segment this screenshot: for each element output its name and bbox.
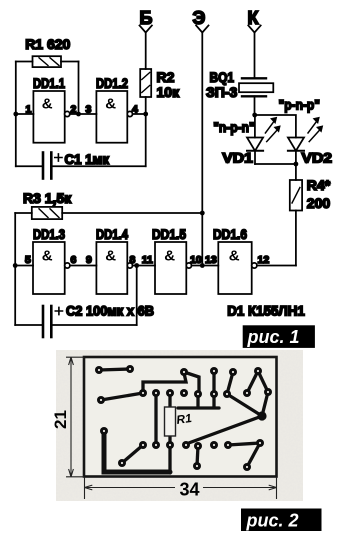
wire DD1.1 out to DD1.2 in <box>70 113 97 115</box>
svg-text:R4*: R4* <box>307 177 331 193</box>
node junction E/pin13 <box>200 263 205 268</box>
node junction pin4/R2 <box>143 112 148 117</box>
op-amp DD1.5 inverter <box>155 242 191 294</box>
wire DD1.2 out <box>133 113 146 115</box>
wire VD top rail <box>255 115 296 138</box>
node junction BQ1/VD <box>252 113 257 118</box>
trace diag 258-268 <box>258 371 268 392</box>
svg-text:R1: R1 <box>175 411 192 427</box>
svg-text:"p-n-p": "p-n-p" <box>279 97 321 113</box>
svg-text:1: 1 <box>26 103 32 115</box>
svg-text:6: 6 <box>71 254 77 266</box>
svg-text:С1 1мк: С1 1мк <box>65 151 110 167</box>
svg-text:D1 К155ЛН1: D1 К155ЛН1 <box>227 302 305 318</box>
svg-text:VD1: VD1 <box>222 150 253 166</box>
svg-text:4: 4 <box>132 103 138 115</box>
svg-text:Б: Б <box>140 8 153 28</box>
wire VD1 anode <box>254 115 256 138</box>
resistor R2 <box>140 69 151 97</box>
PCB board outline <box>84 357 277 477</box>
svg-text:К: К <box>248 8 260 28</box>
svg-text:3: 3 <box>86 103 92 115</box>
svg-text:10к: 10к <box>157 84 181 100</box>
svg-text:2: 2 <box>71 103 77 115</box>
terminal K <box>248 8 261 79</box>
trace vertical 156 <box>154 393 157 445</box>
component outline R1 on board <box>165 407 193 436</box>
svg-text:10: 10 <box>190 254 202 266</box>
trace blob long diagonal <box>186 416 262 444</box>
op-amp DD1.2 inverter <box>96 91 132 143</box>
dimension 34 <box>85 477 277 499</box>
op-amp DD1.6 inverter <box>218 242 257 294</box>
svg-text:DD1.2: DD1.2 <box>96 75 128 91</box>
svg-text:9: 9 <box>86 254 92 266</box>
terminal B <box>140 8 153 69</box>
svg-text:&: & <box>42 248 53 265</box>
svg-text:12: 12 <box>258 254 270 266</box>
svg-text:13: 13 <box>205 254 217 266</box>
piezo BQ1 <box>239 78 273 115</box>
op-amp DD1.1 inverter <box>33 91 69 143</box>
wire pin5 input <box>15 265 33 267</box>
svg-text:&: & <box>164 248 175 265</box>
resistor R1 <box>16 56 79 67</box>
capacitor C1 <box>16 153 146 179</box>
wire left rail bottom section <box>14 213 16 325</box>
node pin5 junction <box>13 263 18 268</box>
trace left to cluster <box>101 393 143 400</box>
wire R2 down to C1 <box>145 97 147 166</box>
svg-text:С2 100мк х 6В: С2 100мк х 6В <box>66 303 154 319</box>
svg-text:"n-p-n": "n-p-n" <box>213 119 255 135</box>
svg-text:34: 34 <box>180 480 200 500</box>
svg-text:рис. 1: рис. 1 <box>247 327 300 347</box>
svg-text:DD1.5: DD1.5 <box>152 226 186 242</box>
svg-text:8: 8 <box>130 254 136 266</box>
wire R1 right leg down <box>78 62 80 115</box>
svg-text:VD2: VD2 <box>302 150 333 166</box>
svg-text:5: 5 <box>25 254 31 266</box>
resistor R4 <box>290 164 302 266</box>
solder pads <box>95 365 272 471</box>
trace diag 260-247 <box>247 443 260 467</box>
node junction E/R3 <box>200 211 205 216</box>
wire DD1.5 out <box>192 265 219 267</box>
wire DD1.4 out <box>133 265 156 267</box>
node junction R1/pin2 <box>76 112 81 117</box>
svg-text:ЗП-3: ЗП-3 <box>206 84 237 100</box>
capacitor C2 <box>15 306 137 337</box>
dimension 21 <box>66 357 84 477</box>
wire C2 right leg <box>136 266 138 326</box>
caption ris.2 <box>241 509 322 532</box>
svg-text:200: 200 <box>307 195 331 211</box>
trace diag 258-247 <box>247 371 258 393</box>
trace vertical 214 <box>212 371 215 394</box>
svg-text:&: & <box>105 96 116 113</box>
op-amp DD1.4 inverter <box>96 242 132 294</box>
trace diag 233-227 <box>227 372 233 394</box>
wire DD1.3 out <box>70 265 97 267</box>
node junction VD2/R4 <box>294 162 299 167</box>
LED VD1 <box>247 117 280 164</box>
svg-text:R2: R2 <box>157 69 175 85</box>
svg-text:DD1.1: DD1.1 <box>33 75 65 91</box>
op-amp DD1.3 inverter <box>33 242 70 294</box>
LED VD2 <box>288 117 323 164</box>
svg-text:рис. 2: рис. 2 <box>246 510 299 530</box>
trace bottom row link <box>228 443 260 445</box>
svg-text:DD1.3: DD1.3 <box>33 226 65 242</box>
svg-text:21: 21 <box>51 410 70 429</box>
trace bent top-center <box>143 373 186 393</box>
svg-text:R3 1,5к: R3 1,5к <box>23 190 72 206</box>
svg-text:DD1.4: DD1.4 <box>96 226 128 242</box>
trace ground rail thick <box>104 431 170 472</box>
wire DD1.6 out to R4 <box>257 265 296 267</box>
trace vertical 170 through R1 <box>168 393 171 473</box>
resistor R3 <box>15 207 202 219</box>
svg-text:&: & <box>229 248 240 265</box>
photo background <box>56 350 303 501</box>
svg-text:Э: Э <box>193 8 206 28</box>
trace diag pad122 <box>122 445 143 463</box>
svg-text:BQ1: BQ1 <box>210 69 235 85</box>
trace stub 198 down <box>197 446 198 466</box>
svg-text:&: & <box>42 96 53 113</box>
node pin1 junction <box>13 112 18 117</box>
wire left rail top section <box>15 62 17 167</box>
svg-text:DD1.6: DD1.6 <box>213 226 247 242</box>
svg-text:&: & <box>105 248 116 265</box>
wire VD bottom rail <box>255 163 296 165</box>
svg-text:R1 620: R1 620 <box>25 36 70 52</box>
trace top-left pair <box>99 369 130 370</box>
node junction pin8/C2 <box>134 263 139 268</box>
svg-text:11: 11 <box>142 254 153 266</box>
trace comb horizontal <box>178 394 219 408</box>
caption ris.1 <box>243 325 315 348</box>
pad holes <box>98 368 269 468</box>
trace blob riser <box>262 392 268 416</box>
terminal E <box>193 8 209 266</box>
wire pin1 input <box>16 113 34 115</box>
trace bend 184-198 <box>184 372 199 394</box>
trace blob to 227 <box>227 394 262 416</box>
